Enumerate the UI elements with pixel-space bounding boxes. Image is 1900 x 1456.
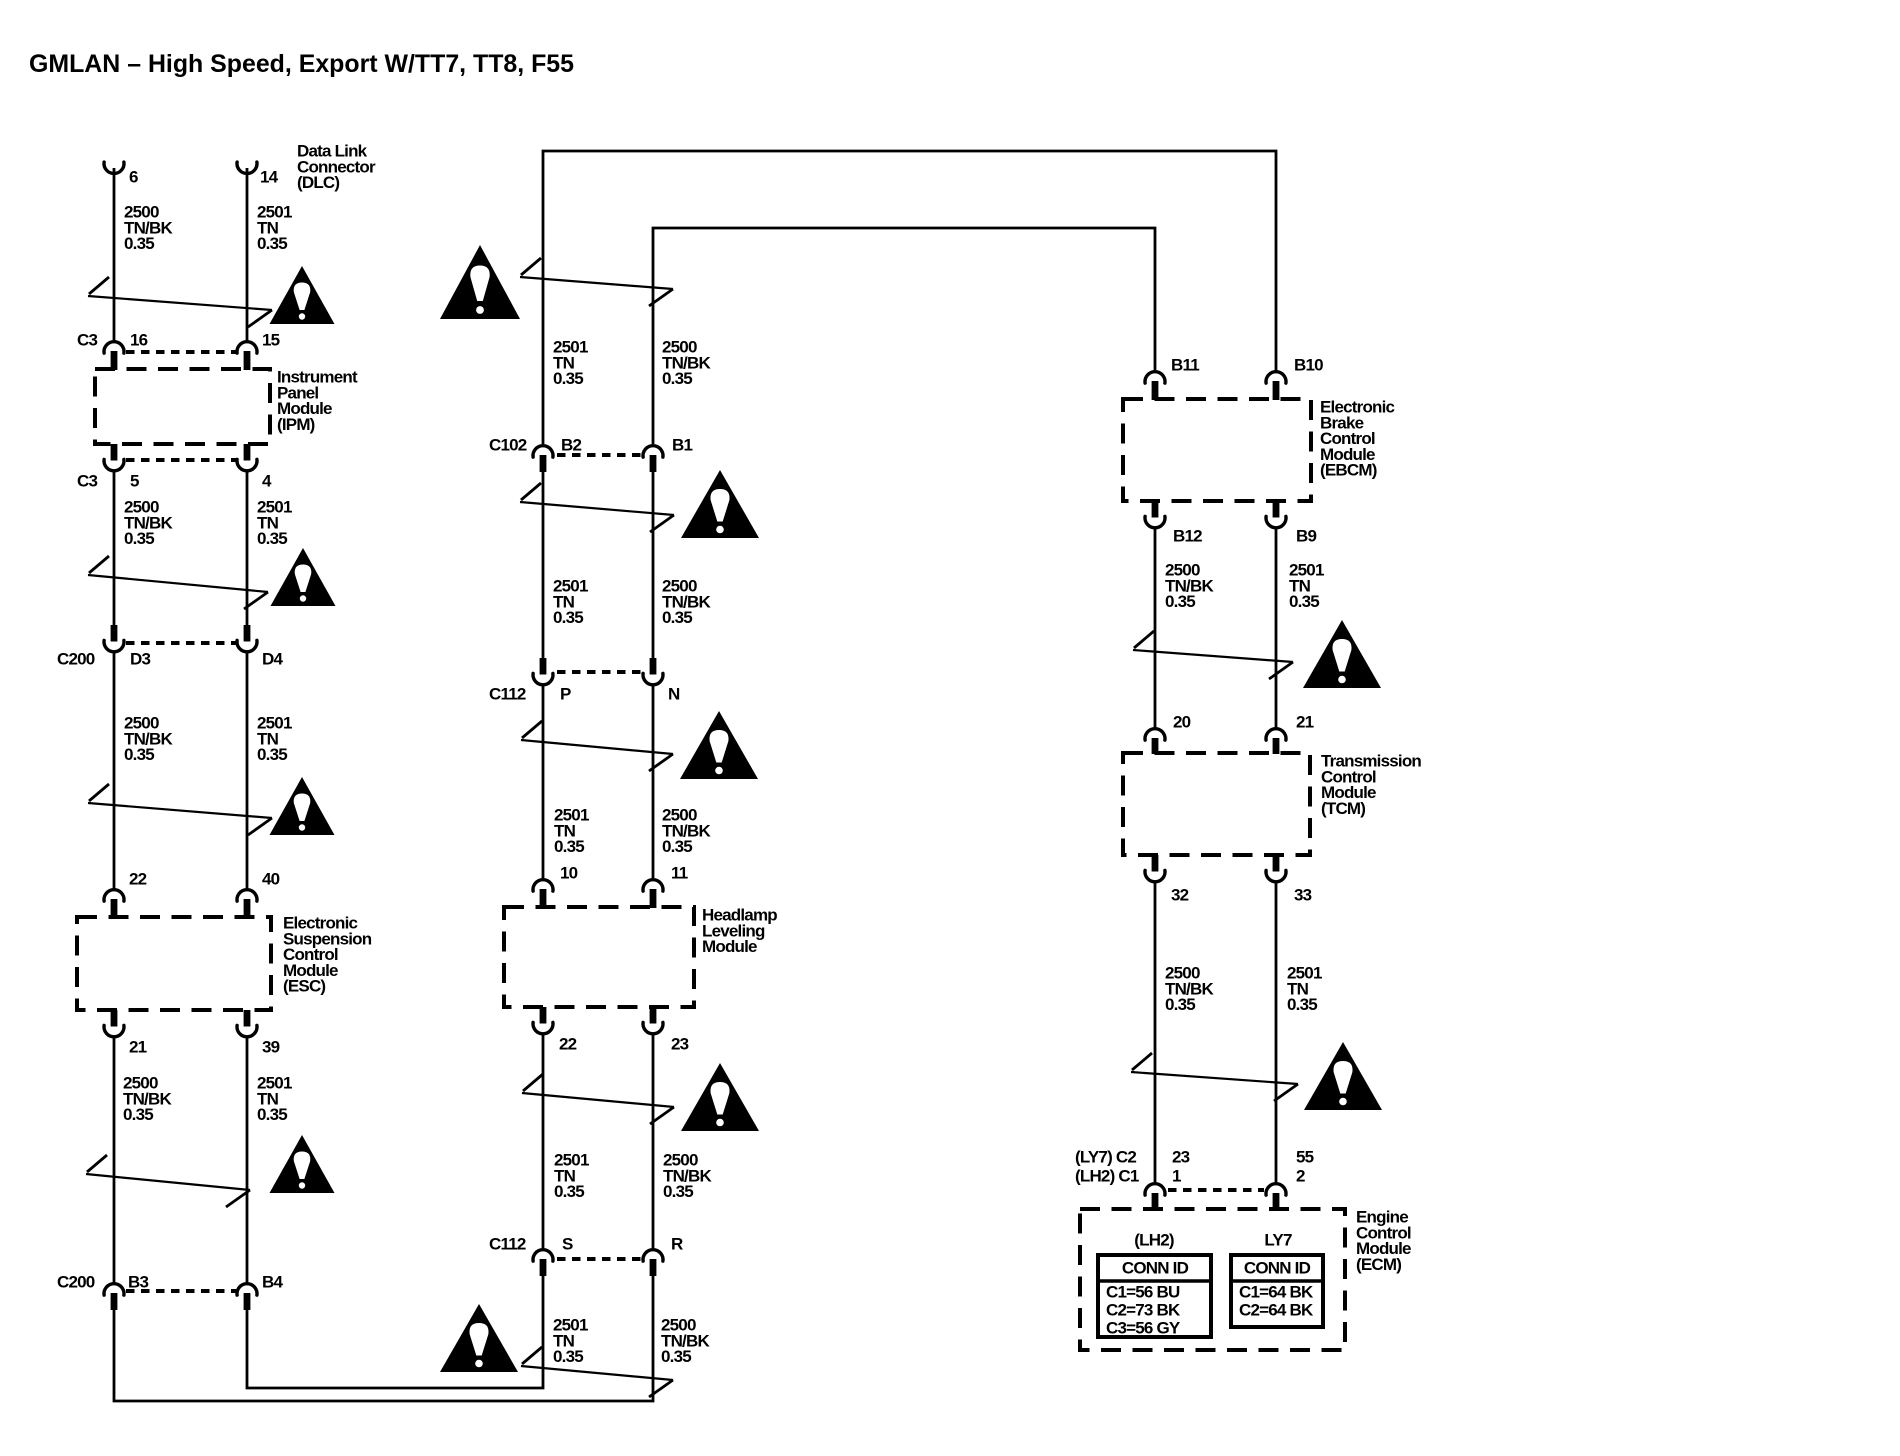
wire 2501 TN: C102 B2 to C112 P [542,471,545,659]
connector terminal: IPM C3 pin 16 [104,342,124,370]
connector terminal: headlamp module pin 23 [643,1007,663,1034]
svg-text:B3: B3 [128,1273,148,1292]
svg-text:0.35: 0.35 [553,1347,583,1366]
svg-text:P: P [560,685,571,704]
connector C3 link (pins 5-4) [126,458,236,462]
svg-text:6: 6 [129,168,138,187]
svg-text:C112: C112 [489,1235,526,1254]
svg-text:2: 2 [1296,1167,1305,1186]
svg-text:40: 40 [262,870,280,889]
svg-text:(TCM): (TCM) [1321,799,1365,818]
svg-text:R: R [671,1235,683,1254]
svg-text:23: 23 [671,1035,689,1054]
wire 2500 TN/BK: ESC pin 21 to C200 B3 [113,1036,116,1283]
svg-text:0.35: 0.35 [662,837,692,856]
wire 2501 TN: C200 D4 to ESC pin 40 [246,652,249,889]
svg-text:22: 22 [559,1035,577,1054]
twisted pair symbol below IPM [88,556,268,609]
svg-text:0.35: 0.35 [124,529,154,548]
svg-text:LY7: LY7 [1264,1231,1292,1250]
connector terminal: C112 pin P [533,658,553,685]
connector terminal: ECM pin 23/1 [1145,1184,1165,1210]
wire 2501 TN: C102 B2 up, across top, down to EBCM B10 [543,151,1276,444]
svg-text:D3: D3 [130,650,150,669]
warning triangle at C112 S/R [440,1304,518,1372]
svg-text:5: 5 [130,472,139,491]
svg-text:N: N [668,685,680,704]
svg-text:0.35: 0.35 [554,837,584,856]
svg-text:23: 23 [1172,1148,1190,1167]
connector terminal: ESC pin 21 [104,1010,124,1037]
connector terminal: headlamp module pin 22 [533,1007,553,1034]
warning triangle below EBCM [1303,620,1381,688]
svg-text:0.35: 0.35 [1289,592,1319,611]
svg-text:Module: Module [702,937,757,956]
wire 2500 TN/BK: EBCM B12 to TCM pin 20 [1154,528,1157,728]
svg-text:0.35: 0.35 [124,745,154,764]
svg-text:22: 22 [129,870,147,889]
module box: Electronic Suspension Control Module (ESC) [77,917,271,1010]
warning triangle below ESC [270,1135,335,1193]
connector terminal: C102 pin B1 [643,446,663,472]
connector terminal: DLC pin 6 [104,162,124,173]
twisted pair symbol at top of middle run [520,258,673,306]
svg-text:0.35: 0.35 [662,369,692,388]
wire 2500 TN/BK: TCM pin 32 to ECM pin 23/1 [1154,882,1157,1183]
svg-text:0.35: 0.35 [124,234,154,253]
warning triangle (twisted pair note) below DLC [270,266,335,324]
wire 2500 TN/BK: C200 D3 to ESC pin 22 [113,652,116,889]
wire 2500 TN/BK: C112 N to headlamp module pin 11 [652,685,655,879]
svg-text:0.35: 0.35 [257,745,287,764]
connector terminal: ECM pin 55/2 [1266,1184,1286,1210]
connector terminal: C200 pin D4 [237,625,257,652]
twisted pair symbol below ESC [86,1155,250,1207]
svg-text:0.35: 0.35 [1287,995,1317,1014]
svg-text:(ESC): (ESC) [283,977,325,996]
twisted pair symbol below DLC [88,277,272,327]
svg-text:(ECM): (ECM) [1356,1255,1401,1274]
svg-text:16: 16 [130,331,148,350]
svg-text:55: 55 [1296,1148,1314,1167]
connector terminal: ESC pin 40 [237,890,257,918]
svg-text:C2=64 BK: C2=64 BK [1239,1301,1314,1320]
warning triangle below C200 D3/D4 [270,777,335,835]
svg-text:4: 4 [262,472,272,491]
connector terminal: C200 pin B3 [104,1284,124,1310]
connector terminal: EBCM pin B9 [1266,501,1286,528]
connector terminal: TCM pin 20 [1145,729,1165,754]
wire 2500 TN/BK: DLC pin 6 down to IPM C3-16 [113,168,116,341]
svg-text:10: 10 [560,864,578,883]
module box: Electronic Brake Control Module (EBCM) [1123,399,1311,501]
wire 2501 TN: C200 B4 down, right along bottom, up to C112 S [247,1276,543,1388]
svg-text:S: S [562,1235,573,1254]
svg-text:CONN ID: CONN ID [1122,1259,1189,1278]
wire 2500 TN/BK: C102 B1 to C112 N [652,471,655,659]
svg-text:21: 21 [1296,713,1314,732]
CONN ID table (LY7) [1231,1255,1323,1327]
connector terminal: headlamp module pin 11 [643,880,663,908]
connector terminal: headlamp module pin 10 [533,880,553,908]
svg-text:GMLAN – High Speed, Export W/T: GMLAN – High Speed, Export W/TT7, TT8, F… [29,50,574,78]
connector C102 link (pins B2-B1) [557,453,641,457]
svg-text:(LH2) C1: (LH2) C1 [1075,1167,1139,1186]
connector C200 link (pins B3-B4) [126,1289,236,1293]
svg-text:B11: B11 [1171,356,1199,375]
svg-text:(DLC): (DLC) [297,173,339,192]
connector terminal: ESC pin 22 [104,890,124,918]
connector terminal: IPM C3 pin 15 [237,342,257,370]
module box: Engine Control Module (ECM) [1080,1209,1345,1350]
connector terminal: EBCM pin B12 [1145,501,1165,528]
svg-text:B1: B1 [672,436,692,455]
svg-text:C200: C200 [57,1273,95,1292]
wire 2500 TN/BK: C200 B3 down, right along bottom, up to C112 R [114,1276,653,1401]
twisted pair symbol below C102 [520,483,674,532]
svg-text:B2: B2 [561,436,581,455]
svg-text:D4: D4 [262,650,283,669]
svg-text:21: 21 [129,1038,147,1057]
module box: Transmission Control Module (TCM) [1123,753,1310,855]
connector terminal: TCM pin 32 [1145,855,1165,882]
connector terminal: C112 pin S [533,1250,553,1276]
connector terminal: TCM pin 21 [1266,729,1286,754]
warning triangle below C112 P/N [680,711,758,779]
connector terminal: IPM C3 pin 4 [237,444,257,471]
wire 2501 TN: TCM pin 33 to ECM pin 55/2 [1275,882,1278,1183]
svg-text:B10: B10 [1294,356,1323,375]
connector terminal: EBCM pin B10 [1266,372,1286,400]
twisted pair symbol at C112 S/R [521,1347,673,1397]
warning triangle at top of middle run [440,245,520,319]
svg-text:0.35: 0.35 [553,369,583,388]
connector terminal: C200 pin B4 [237,1284,257,1310]
connector C112 link (pins P-N) [557,670,641,674]
svg-text:0.35: 0.35 [554,1182,584,1201]
svg-text:0.35: 0.35 [1165,592,1195,611]
twisted pair symbol below C200 D3/D4 [88,784,272,835]
svg-text:1: 1 [1172,1167,1181,1186]
svg-text:C1=56 BU: C1=56 BU [1106,1283,1180,1302]
twisted pair symbol below TCM [1131,1053,1298,1101]
twisted pair symbol below headlamp module [522,1074,674,1124]
svg-text:(IPM): (IPM) [277,415,315,434]
warning triangle below TCM [1304,1042,1382,1110]
connector terminal: C112 pin N [643,658,663,685]
wire 2501 TN: DLC pin 14 down to IPM C3-15 [246,168,249,341]
svg-text:C3: C3 [77,331,97,350]
svg-text:14: 14 [260,168,279,187]
connector terminal: TCM pin 33 [1266,855,1286,882]
connector terminal: EBCM pin B11 [1145,372,1165,400]
connector link at ECM (pins 1-2) [1168,1188,1264,1192]
svg-text:0.35: 0.35 [123,1105,153,1124]
wire 2501 TN: headlamp pin 22 to C112 S [542,1034,545,1249]
svg-text:39: 39 [262,1038,280,1057]
svg-text:20: 20 [1173,713,1191,732]
svg-text:C1=64 BK: C1=64 BK [1239,1283,1314,1302]
connector terminal: C200 pin D3 [104,625,124,652]
wire 2500 TN/BK: headlamp pin 23 to C112 R [652,1034,655,1249]
svg-text:15: 15 [262,331,280,350]
warning triangle below headlamp module [681,1063,759,1131]
connector C112 link (pins S-R) [557,1257,641,1261]
module box: Headlamp Leveling Module [504,907,694,1007]
svg-text:C3=56 GY: C3=56 GY [1106,1319,1181,1338]
svg-text:C3: C3 [77,472,97,491]
wire 2501 TN: C112 P to headlamp module pin 10 [542,685,545,879]
svg-text:11: 11 [671,864,688,883]
wire 2501 TN: EBCM B9 to TCM pin 21 [1275,528,1278,728]
svg-text:(LY7) C2: (LY7) C2 [1075,1148,1136,1167]
svg-text:B9: B9 [1296,527,1316,546]
svg-text:CONN ID: CONN ID [1244,1259,1311,1278]
connector terminal: IPM C3 pin 5 [104,444,124,471]
svg-text:0.35: 0.35 [553,608,583,627]
svg-text:0.35: 0.35 [257,529,287,548]
svg-text:32: 32 [1171,886,1189,905]
svg-text:C112: C112 [489,685,526,704]
connector C200 link (pins D3-D4) [126,641,236,645]
svg-text:0.35: 0.35 [1165,995,1195,1014]
svg-text:33: 33 [1294,886,1312,905]
twisted pair symbol below C112 P/N [521,721,673,771]
wire 2500 TN/BK: IPM pin 5 to C200 D3 [113,470,116,626]
svg-text:0.35: 0.35 [662,608,692,627]
svg-text:(EBCM): (EBCM) [1320,461,1377,480]
wire 2501 TN: ESC pin 39 to C200 B4 [246,1036,249,1283]
svg-text:0.35: 0.35 [257,1105,287,1124]
svg-text:B4: B4 [262,1273,283,1292]
connector C3 link (pins 16-15) [126,350,236,354]
module box: Instrument Panel Module (IPM) [95,369,270,444]
svg-text:0.35: 0.35 [257,234,287,253]
svg-text:C200: C200 [57,650,95,669]
warning triangle below C102 [681,470,759,538]
svg-text:C2=73 BK: C2=73 BK [1106,1301,1181,1320]
connector terminal: DLC pin 14 [237,162,257,173]
wire 2501 TN: IPM pin 4 to C200 D4 [246,470,249,626]
warning triangle below IPM [271,548,336,606]
svg-text:C102: C102 [489,436,527,455]
connector terminal: ESC pin 39 [237,1010,257,1037]
twisted pair symbol below EBCM [1133,631,1293,679]
svg-text:B12: B12 [1173,527,1202,546]
svg-text:0.35: 0.35 [663,1182,693,1201]
CONN ID table (LH2) [1098,1255,1211,1337]
svg-text:(LH2): (LH2) [1134,1231,1174,1250]
wire 2500 TN/BK: C102 B1 up, across, down to EBCM B11 [653,228,1155,444]
connector terminal: C102 pin B2 [533,446,553,472]
connector terminal: C112 pin R [643,1250,663,1276]
svg-text:0.35: 0.35 [661,1347,691,1366]
